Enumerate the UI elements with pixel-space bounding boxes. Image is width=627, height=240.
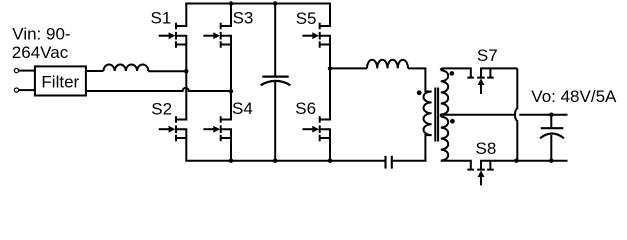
capacitor Cdc bottom lead [274, 82, 276, 160]
transistor S1 [159, 4, 187, 72]
transistor S4 [203, 91, 231, 160]
inductor Lr [367, 60, 408, 69]
wire center tap rail left [441, 115, 515, 117]
node C junction dot (S5/S6 midpoint) [328, 66, 332, 70]
inductor Lin [104, 65, 149, 71]
svg-text:S4: S4 [232, 99, 253, 118]
capacitor Co top plate [541, 127, 564, 129]
wire S7 source down with hop over center tap [515, 68, 517, 160]
wire input bottom to filter [19, 89, 34, 91]
capacitor Co top lead [550, 115, 552, 128]
transistor S6 [302, 68, 330, 160]
svg-text:S8: S8 [476, 139, 497, 158]
wire input top to filter [19, 70, 34, 72]
capacitor Cdc top plate [262, 75, 288, 77]
input terminal top [14, 69, 18, 73]
input terminal bottom [14, 88, 18, 92]
junction dot bottom rail S6 leg [328, 159, 332, 163]
transistor S5 [302, 4, 330, 69]
transformer T1 secondary bottom winding [441, 117, 448, 161]
transformer T1 primary dot [417, 90, 422, 95]
wire inductor to bridge node A [148, 70, 186, 72]
transformer T1 core [435, 88, 438, 142]
wire secondary bottom to S8 [441, 161, 471, 170]
top rail [185, 3, 331, 5]
svg-text:S3: S3 [233, 9, 254, 28]
wire Cr to transformer primary bottom [393, 135, 432, 161]
svg-text:S6: S6 [295, 99, 316, 118]
bottom rail [185, 160, 384, 162]
capacitor Cdc curved plate [261, 81, 291, 85]
svg-text:Filter: Filter [41, 73, 79, 92]
junction dot S7/S8 source [514, 159, 518, 163]
junction dot top rail cap leg [273, 1, 277, 5]
transistor S7 [467, 68, 517, 94]
capacitor Cr left plate [384, 156, 386, 169]
node B junction dot [229, 89, 233, 93]
junction dot output cap bottom [549, 159, 553, 163]
svg-text:S1: S1 [151, 9, 172, 28]
junction dot bottom rail S4 leg [229, 159, 233, 163]
node Vin label [12, 24, 71, 62]
filter box [35, 66, 86, 95]
wire Lr to transformer primary top [408, 68, 432, 91]
svg-text:S2: S2 [151, 99, 172, 118]
capacitor Co curved plate [540, 134, 564, 139]
capacitor Cr right plate [391, 156, 393, 169]
node A junction dot [184, 69, 188, 73]
svg-text:264Vac: 264Vac [12, 43, 69, 62]
transformer T1 secondary top winding [441, 70, 448, 114]
transistor S2 [159, 71, 187, 161]
wire filter top output [87, 70, 104, 72]
transformer T1 primary winding [424, 92, 432, 136]
svg-text:Vo: 48V/5A: Vo: 48V/5A [531, 87, 617, 106]
capacitor Co bottom lead [550, 135, 552, 161]
svg-text:S7: S7 [477, 46, 498, 65]
junction dot bottom rail cap leg [273, 159, 277, 163]
transformer T1 secondary bottom dot [450, 119, 455, 124]
transistor S3 [203, 4, 231, 92]
svg-text:Vin: 90-: Vin: 90- [12, 24, 70, 43]
capacitor Cdc top lead [274, 5, 276, 76]
wire filter bottom with hop over leg [87, 88, 231, 91]
junction dot top rail S3 leg [229, 1, 233, 5]
wire secondary top to S7 [441, 68, 471, 77]
wire midpoint to resonant inductor [330, 67, 367, 69]
junction dot output cap top [549, 113, 553, 117]
svg-text:S5: S5 [296, 9, 317, 28]
transformer T1 secondary top dot [450, 71, 455, 76]
transistor S8 [467, 161, 567, 186]
wire center tap rail right [519, 114, 567, 116]
